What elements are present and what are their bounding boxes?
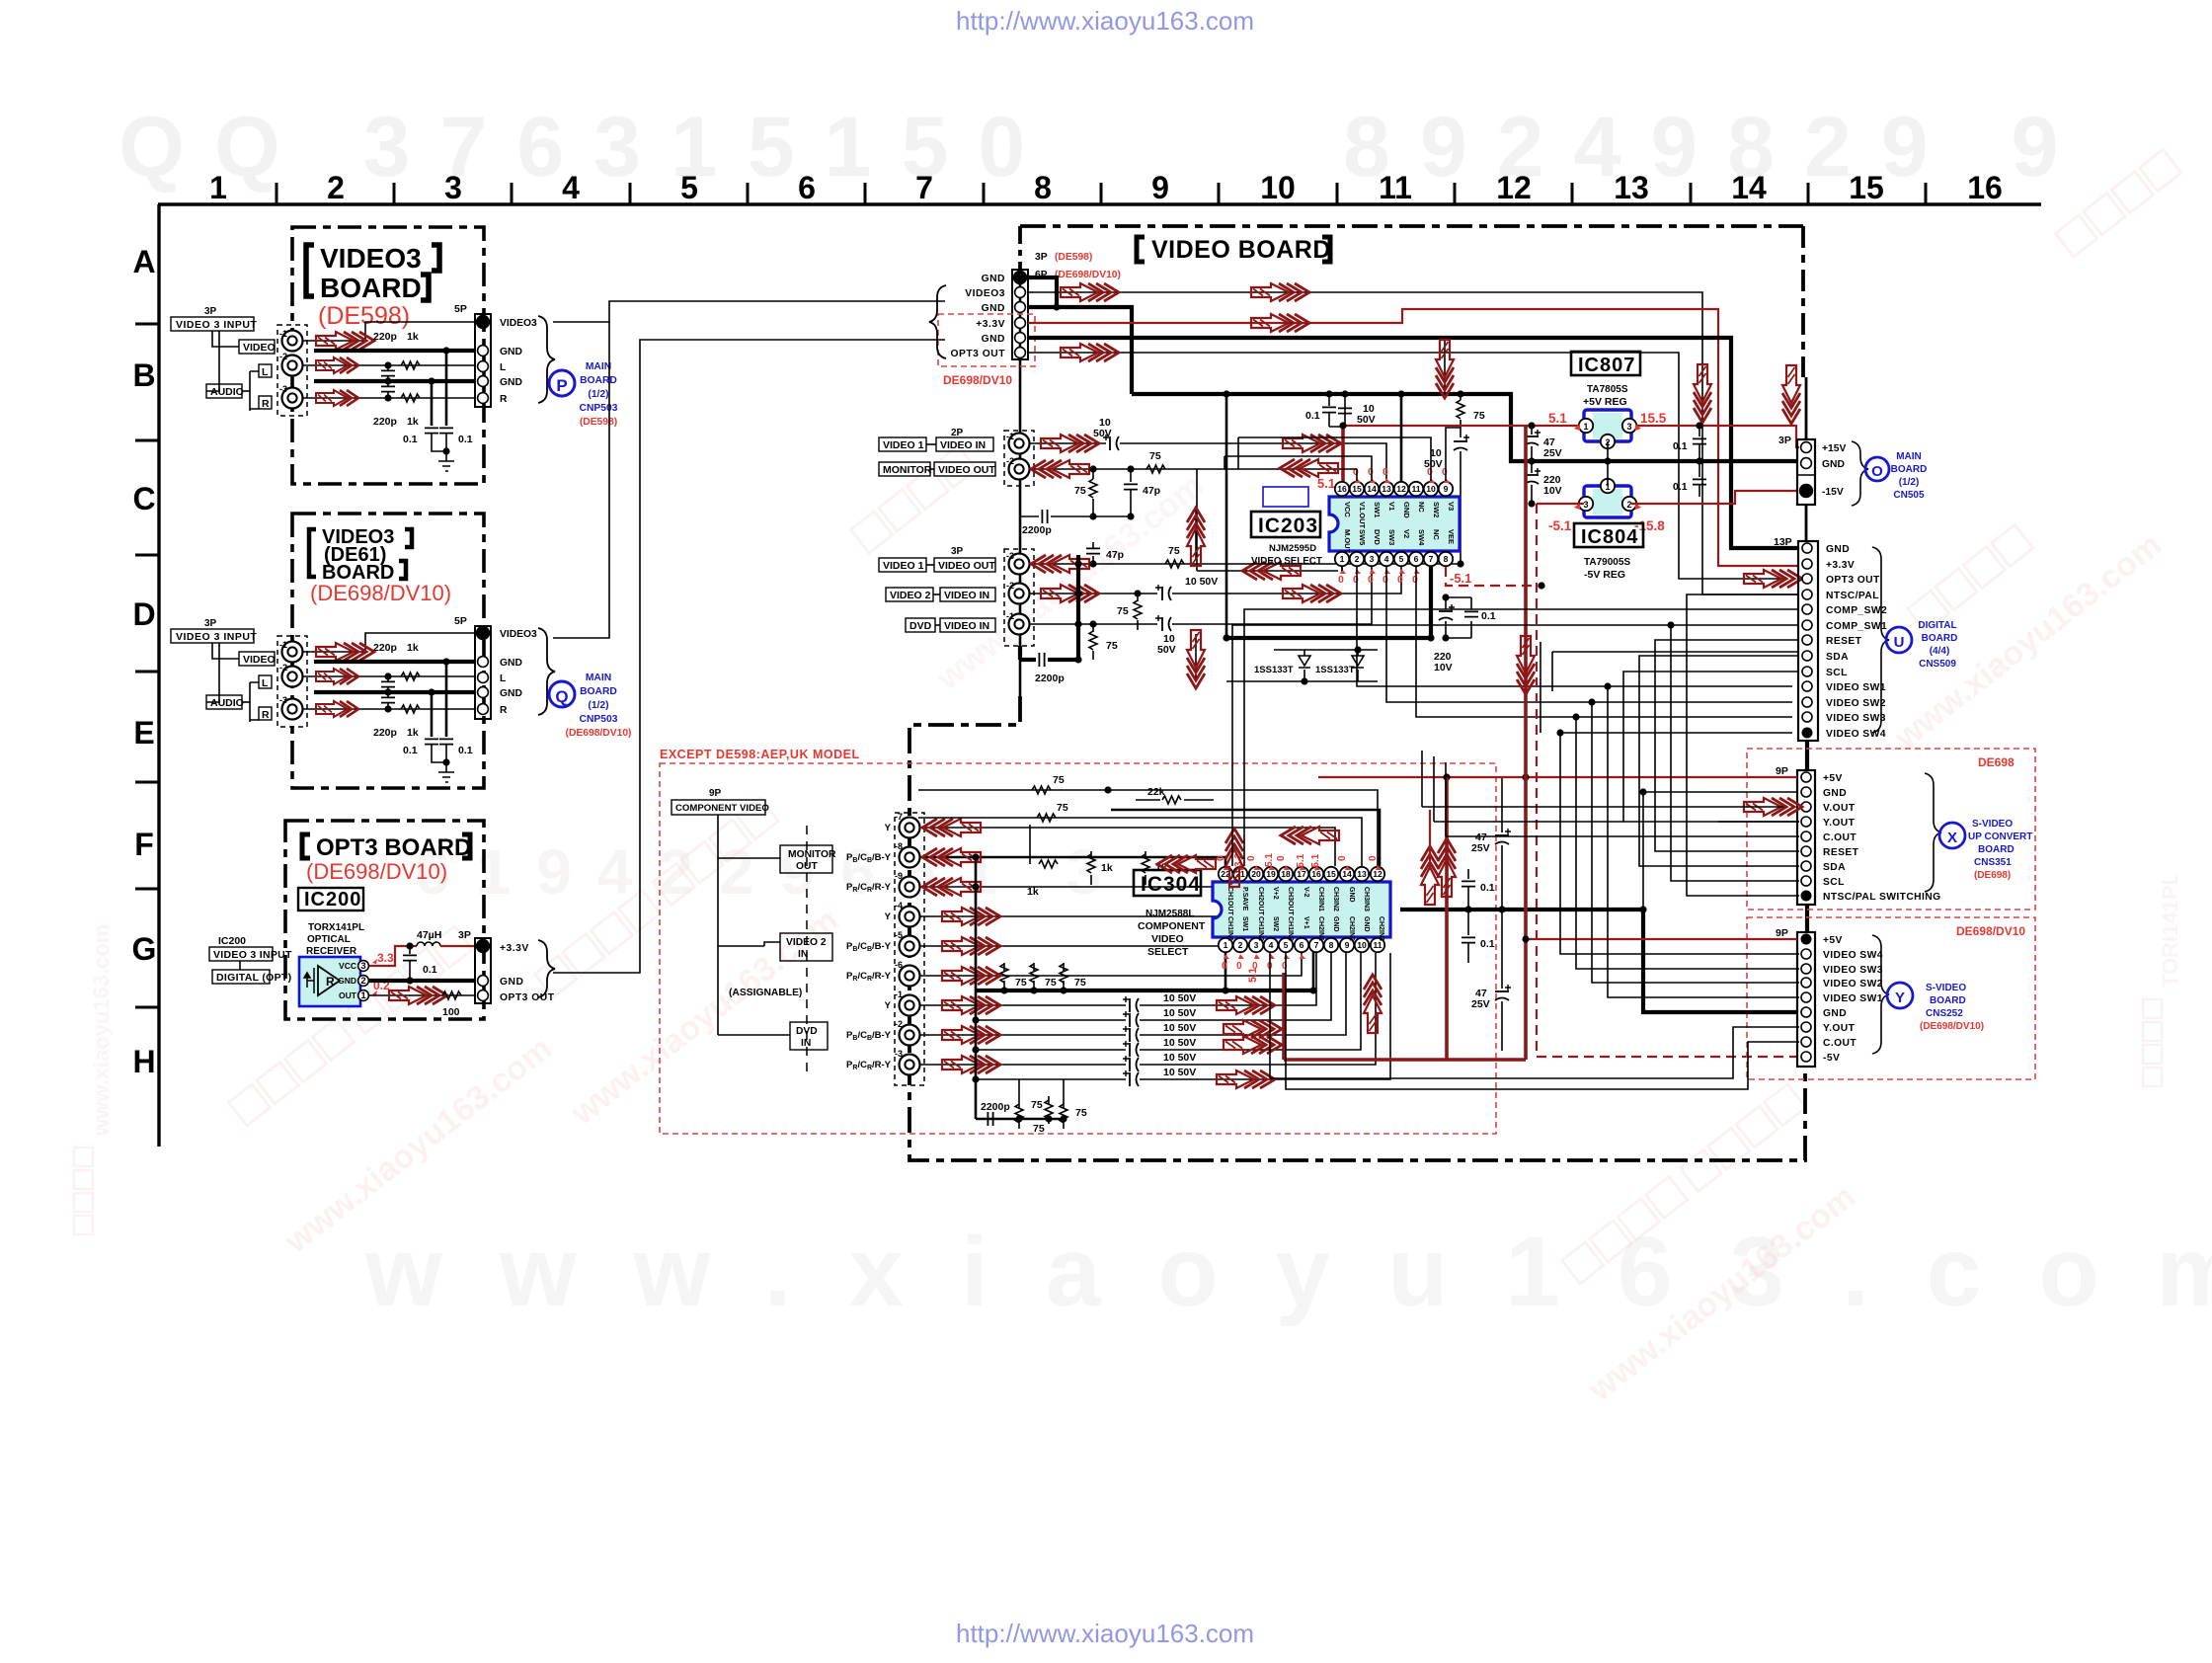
svg-text:CH1OUT: CH1OUT [1226, 887, 1233, 916]
wire junction [1104, 786, 1111, 793]
wire junction [1074, 590, 1081, 596]
signal arrow (right) [1061, 283, 1119, 301]
resistor [1087, 854, 1095, 873]
svg-text:15: 15 [1326, 869, 1336, 879]
svg-text:0: 0 [1397, 574, 1403, 586]
wire [1140, 953, 1376, 1065]
svg-text:5: 5 [1284, 940, 1289, 950]
connector pin [478, 704, 489, 715]
connector CNS509 13P to digital board [1798, 541, 1818, 741]
svg-text:10: 10 [1357, 940, 1367, 950]
svg-text:2: 2 [360, 976, 365, 987]
connector pin [358, 990, 369, 1001]
board outline box [277, 325, 307, 416]
svg-text:0.1: 0.1 [458, 434, 473, 445]
svg-text:NTSC/PAL: NTSC/PAL [1826, 591, 1879, 601]
power wire [1343, 426, 1799, 447]
svg-text:10 50V: 10 50V [1163, 1007, 1196, 1019]
signal arrow (right) [1061, 344, 1119, 361]
wire [553, 322, 609, 638]
svg-text:11: 11 [1379, 170, 1412, 205]
symbol path [1254, 954, 1260, 959]
svg-text:SW4: SW4 [1417, 529, 1426, 546]
signal arrow (right) [1744, 798, 1802, 816]
wire junction [384, 394, 391, 401]
power wire [440, 945, 475, 947]
svg-text:-5: -5 [895, 930, 903, 940]
svg-text:3: 3 [1370, 554, 1375, 564]
RCA jack [1009, 459, 1030, 480]
resistor [1060, 964, 1067, 983]
power wire [1341, 426, 1345, 481]
svg-text:SCL: SCL [1826, 668, 1848, 678]
label box [934, 462, 995, 476]
ground bus wire [1028, 277, 1057, 307]
svg-text:CNP503: CNP503 [580, 714, 618, 725]
label box [239, 340, 275, 354]
wire [1531, 485, 1533, 504]
box [298, 888, 363, 911]
svg-text:0: 0 [1412, 574, 1418, 586]
svg-text:12: 12 [1373, 869, 1382, 879]
power wire [1284, 426, 1526, 1060]
svg-text:6194229651 3: 6194229651 3 [415, 836, 1127, 908]
svg-text:RESET: RESET [1823, 847, 1859, 858]
svg-text:L: L [500, 362, 506, 373]
svg-text:3P: 3P [204, 618, 217, 629]
svg-text:15: 15 [1352, 484, 1362, 494]
svg-text:14: 14 [1367, 484, 1377, 494]
svg-text:RECEIVER: RECEIVER [306, 946, 357, 957]
wire [1020, 486, 1039, 516]
connector pin 1 (filled) [1800, 485, 1813, 498]
svg-text:10 50V: 10 50V [1185, 576, 1218, 588]
signal arrow (left) [1157, 855, 1216, 873]
wire [409, 946, 411, 954]
signal arrow (right) [1283, 435, 1341, 452]
ground bus wire [314, 379, 475, 383]
wire [431, 692, 434, 737]
IC pin [1249, 867, 1263, 881]
wire [1642, 792, 1644, 910]
wire [1195, 634, 1197, 681]
svg-text:VIDEO3: VIDEO3 [500, 318, 537, 329]
wire [920, 857, 1225, 866]
electrolytic capacitor [1123, 1011, 1139, 1027]
wire [1531, 426, 1533, 435]
svg-text:-6: -6 [895, 960, 903, 970]
signal arrow (left) [1280, 459, 1338, 477]
title VIDEO3 BOARD [320, 243, 422, 303]
svg-text:CH2IN2: CH2IN2 [1348, 916, 1355, 941]
capacitor [1086, 548, 1100, 553]
svg-text:NC: NC [1432, 529, 1441, 540]
wire [1172, 567, 1372, 624]
svg-text:-3: -3 [1006, 551, 1014, 561]
ground bus wire [1028, 307, 1132, 394]
svg-text:Y: Y [1895, 990, 1905, 1006]
diode D 1SS133T [1299, 656, 1310, 668]
svg-text:+15V: +15V [1822, 443, 1846, 454]
svg-text:6: 6 [798, 170, 816, 205]
svg-text:-1: -1 [895, 990, 903, 999]
wire [1501, 777, 1503, 832]
signal arrow (left) [1031, 460, 1089, 478]
wire junction [384, 361, 391, 368]
connector pin [1801, 1037, 1811, 1047]
wire junction [442, 347, 449, 354]
board outline box [1004, 431, 1034, 486]
wire [1531, 446, 1533, 461]
label box [780, 845, 832, 873]
svg-text:V-2: V-2 [1303, 887, 1309, 898]
electrolytic capacitor [1525, 430, 1540, 445]
svg-text:COMPONENT: COMPONENT [1138, 920, 1206, 932]
ground bus wire [976, 989, 1313, 992]
svg-text:(DE698/DV10): (DE698/DV10) [1920, 1021, 1984, 1032]
svg-text:CH3IN3: CH3IN3 [1363, 887, 1370, 911]
svg-text:75: 75 [1031, 1099, 1043, 1111]
svg-text:VIDEO SW2: VIDEO SW2 [1823, 979, 1883, 990]
wire [1402, 1027, 1799, 1078]
svg-text:VIDEO: VIDEO [1151, 933, 1184, 945]
wire [1286, 953, 1414, 1089]
IC pin [1279, 938, 1293, 952]
electrolytic capacitor [1155, 615, 1171, 631]
svg-text:-15V: -15V [1822, 487, 1844, 498]
capacitor [425, 739, 438, 744]
svg-text:10 50V: 10 50V [1163, 1067, 1196, 1078]
wire [975, 857, 978, 1119]
signal arrow (left) [1031, 555, 1089, 573]
svg-text:CNS252: CNS252 [1926, 1008, 1963, 1019]
svg-text:SW5: SW5 [1358, 529, 1367, 545]
svg-text:10V: 10V [1543, 485, 1562, 497]
wire junction [1604, 457, 1611, 464]
svg-text:14: 14 [1731, 170, 1767, 205]
svg-text:PR/CR/R-Y: PR/CR/R-Y [846, 971, 892, 983]
wire [1197, 469, 1357, 481]
signal arrow (left) [1242, 562, 1301, 580]
IC body fill [1593, 413, 1622, 438]
svg-text:CNP503: CNP503 [580, 403, 618, 414]
electrolytic capacitor [1495, 829, 1511, 844]
wire [369, 994, 475, 996]
svg-text:SDA: SDA [1823, 862, 1846, 873]
svg-text:GND: GND [982, 303, 1005, 314]
svg-text:75: 75 [1149, 450, 1161, 462]
capacitor [1461, 881, 1475, 886]
ground bus wire [1048, 658, 1078, 662]
svg-text:DE698: DE698 [1978, 755, 2014, 769]
wire [1467, 869, 1469, 879]
wire junction [406, 942, 413, 949]
signal arrow (right) [1251, 283, 1309, 301]
wire junction [1074, 620, 1081, 627]
svg-text:CH2IN3: CH2IN3 [1378, 916, 1384, 941]
svg-text:5P: 5P [454, 615, 467, 627]
wire [1400, 393, 1402, 395]
signal arrow (right) [316, 701, 358, 717]
IC pin [1424, 552, 1438, 566]
RCA jack [282, 356, 303, 376]
wire junction [1588, 698, 1595, 705]
signal arrow (right) [1217, 1070, 1275, 1088]
wire [926, 564, 934, 566]
svg-text:-1: -1 [1006, 432, 1014, 441]
svg-text:D: D [132, 596, 155, 632]
svg-text:www.xiaoyu163.com: www.xiaoyu163.com [564, 901, 845, 1133]
svg-text:0: 0 [1338, 574, 1344, 586]
electrolytic capacitor [1123, 1026, 1139, 1042]
svg-text:MAIN: MAIN [586, 361, 611, 372]
signal arrow (up) [1187, 508, 1205, 566]
wire [976, 1118, 1064, 1121]
svg-text:8: 8 [1034, 170, 1052, 205]
wire [1328, 394, 1330, 406]
resistor [401, 705, 420, 713]
wire junction [1127, 465, 1134, 472]
resistor [401, 673, 420, 680]
IC pin [1249, 938, 1263, 952]
symbol path [1805, 377, 1808, 541]
power wire [1028, 309, 1799, 566]
svg-text:3P: 3P [1778, 435, 1791, 446]
connector pin [1801, 1007, 1811, 1017]
capacitor [1464, 611, 1478, 616]
svg-text:50V: 50V [1157, 644, 1176, 656]
wire junction [1498, 906, 1505, 912]
power wire [1318, 776, 1797, 778]
svg-text:GND: GND [1823, 788, 1847, 799]
IC pin [1601, 479, 1615, 493]
wire junction [1639, 906, 1646, 912]
svg-text:VIDEO 2: VIDEO 2 [890, 590, 931, 601]
svg-text:50V: 50V [1357, 414, 1376, 426]
brace [1925, 773, 1941, 892]
wire [1655, 640, 1799, 851]
svg-text:6: 6 [1414, 554, 1419, 564]
svg-text:0.1: 0.1 [1480, 882, 1495, 894]
label box [934, 558, 995, 572]
svg-text:-4: -4 [895, 901, 903, 911]
IC pin [1409, 552, 1423, 566]
svg-text:BOARD: BOARD [320, 273, 422, 303]
svg-text:A: A [132, 244, 155, 279]
IC pin [1394, 482, 1408, 496]
connector pin [478, 990, 489, 1001]
label box [206, 695, 242, 709]
svg-text:SW2: SW2 [1272, 916, 1279, 931]
box [1251, 512, 1320, 537]
svg-text:S-VIDEO: S-VIDEO [1972, 819, 2013, 830]
svg-text:GND: GND [500, 658, 522, 669]
svg-text:12: 12 [1396, 484, 1406, 494]
wire junction [1667, 621, 1674, 628]
svg-text:(DE598): (DE598) [1055, 252, 1092, 263]
wire junction [972, 1046, 979, 1053]
red 0 marks bottom [1338, 574, 1418, 586]
electrolytic capacitor [1454, 435, 1469, 450]
inductor 47uH [417, 942, 440, 946]
wire [1029, 825, 1031, 864]
svg-text:(DE698/DV10): (DE698/DV10) [1055, 270, 1121, 280]
wire [302, 397, 475, 399]
connector pin [1801, 817, 1811, 827]
svg-text:15: 15 [1849, 170, 1884, 205]
connector pin [1802, 651, 1812, 661]
label box [259, 396, 272, 409]
svg-text:R: R [262, 709, 270, 721]
wire junction [442, 758, 449, 765]
svg-text:75: 75 [1117, 605, 1129, 617]
signal arrow (down) [1436, 340, 1454, 398]
svg-text:VIDEO SELECT: VIDEO SELECT [1251, 556, 1322, 567]
svg-text:75: 75 [1074, 977, 1086, 989]
svg-text:OUT: OUT [339, 990, 357, 1000]
connector pin [1801, 1022, 1811, 1032]
svg-text:220p: 220p [373, 416, 397, 428]
svg-text:VIDEO SW1: VIDEO SW1 [1826, 682, 1886, 693]
svg-text:220p: 220p [373, 727, 397, 739]
svg-text:1: 1 [1224, 940, 1228, 950]
wire [1051, 515, 1131, 517]
svg-text:VIDEO3: VIDEO3 [965, 288, 1005, 299]
svg-text:-15.8: -15.8 [1634, 518, 1665, 533]
wire [1269, 953, 1271, 1078]
wire [1592, 702, 1799, 983]
svg-text:SW2: SW2 [1432, 502, 1441, 517]
power wire [1526, 938, 1797, 940]
svg-text:1k: 1k [407, 642, 419, 654]
electrolytic capacitor [1495, 985, 1511, 1000]
svg-text:4: 4 [562, 170, 580, 205]
wire [242, 390, 250, 392]
wire junction [1538, 582, 1544, 589]
svg-text:VIDEO3: VIDEO3 [320, 243, 422, 274]
svg-text:0.1: 0.1 [1673, 481, 1688, 493]
svg-text:+5V: +5V [1823, 935, 1843, 946]
svg-text:DIGITAL: DIGITAL [1918, 620, 1956, 631]
IC pin [1394, 552, 1408, 566]
wire [302, 708, 475, 710]
capacitor [439, 428, 453, 433]
symbol path [1300, 865, 1305, 870]
wire [976, 1078, 1126, 1080]
svg-text:GND: GND [500, 977, 523, 988]
svg-text:7: 7 [1314, 940, 1319, 950]
svg-text:VIDEO OUT: VIDEO OUT [938, 464, 995, 476]
svg-text:(DE598): (DE598) [580, 417, 617, 428]
board outline box [292, 227, 484, 484]
svg-text:R: R [326, 975, 335, 989]
IC pin [1380, 552, 1393, 566]
svg-text:7: 7 [1429, 554, 1434, 564]
diode D 1SS133T [1352, 656, 1364, 668]
svg-text:75: 75 [1473, 410, 1485, 422]
resistor [1045, 1100, 1053, 1119]
wire junction [1325, 390, 1332, 397]
wire junction [1339, 422, 1346, 429]
svg-text:1k: 1k [1027, 886, 1039, 898]
wire [1091, 851, 1145, 885]
svg-text:SCL: SCL [1823, 877, 1845, 888]
symbol path [1284, 954, 1290, 959]
resistor [401, 394, 420, 402]
svg-text:75: 75 [1168, 545, 1180, 557]
wire junction [1089, 513, 1096, 519]
svg-text:VIDEO 3 INPUT: VIDEO 3 INPUT [176, 319, 257, 331]
wire [1224, 456, 1372, 481]
connector CNS252 9P to S-video board [1797, 932, 1815, 1067]
IC pin [1355, 938, 1369, 952]
svg-text:(DE698/DV10): (DE698/DV10) [566, 728, 632, 739]
svg-text:EXCEPT DE598:AEP,UK MODEL: EXCEPT DE598:AEP,UK MODEL [660, 748, 860, 761]
wire junction [1696, 422, 1702, 429]
svg-text:V2: V2 [1402, 529, 1411, 538]
connector pin [1801, 458, 1812, 469]
board outline (dash-dot) [909, 696, 1805, 1160]
svg-text:GND: GND [1402, 502, 1411, 518]
svg-text:GND: GND [1822, 459, 1845, 470]
svg-text:16: 16 [1337, 484, 1347, 494]
connector pin [1015, 318, 1026, 329]
wire [1028, 353, 1787, 579]
wire junction [1442, 594, 1449, 600]
label box [886, 588, 933, 601]
IC pin [1579, 419, 1593, 433]
svg-text:MONITOR: MONITOR [788, 849, 836, 860]
label box [671, 800, 765, 815]
wire junction [1060, 1115, 1066, 1122]
IC pin [1324, 867, 1338, 881]
svg-text:19: 19 [1266, 869, 1276, 879]
svg-text:NC: NC [1417, 502, 1426, 513]
wire [1232, 625, 1799, 866]
IC pin [1309, 938, 1323, 952]
wire [1195, 508, 1197, 559]
IC pin [1350, 482, 1364, 496]
svg-text:IC200: IC200 [218, 935, 246, 947]
signal arrow (right) [316, 332, 374, 350]
wire [1030, 593, 1157, 594]
svg-text:1: 1 [360, 990, 366, 1001]
RCA jack [1009, 554, 1030, 575]
svg-text:220p: 220p [373, 331, 397, 343]
svg-text:13: 13 [1614, 170, 1649, 205]
svg-text:QQ 376315150: QQ 376315150 [118, 100, 1055, 195]
svg-text:+3.3V: +3.3V [976, 319, 1005, 330]
IC pin [1350, 552, 1364, 566]
red marker [372, 990, 377, 995]
svg-text:E: E [133, 715, 154, 751]
RCA jack [900, 966, 920, 987]
svg-text:B: B [132, 357, 155, 393]
wire [1225, 394, 1228, 638]
wire [1140, 953, 1331, 1020]
svg-text:0: 0 [1353, 466, 1359, 478]
wire [1467, 887, 1469, 910]
IC304 body [1213, 882, 1390, 937]
IC pin [1324, 938, 1338, 952]
svg-text:NTSC/PAL SWITCHING: NTSC/PAL SWITCHING [1823, 892, 1941, 903]
IC200 TORX141PL optical receiver (body) [299, 957, 360, 1006]
svg-text:NJM2595D: NJM2595D [1269, 543, 1316, 554]
wire [212, 643, 239, 659]
wire junction [1528, 500, 1535, 507]
wire [1445, 621, 1447, 638]
svg-text:13P: 13P [1774, 536, 1792, 548]
